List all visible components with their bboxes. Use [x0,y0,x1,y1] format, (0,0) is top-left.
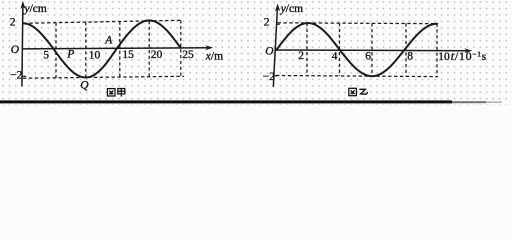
left dashed vertical x=20 [148,21,150,77]
left tick y=+2 [23,22,27,24]
right x-axis arrowhead [464,48,472,53]
svg-text:10: 10 [438,51,450,63]
svg-text:25: 25 [182,49,194,61]
right y-axis arrowhead [275,4,280,12]
bottom scan bar [0,100,452,103]
left tick y=-2 [22,75,26,77]
svg-text:20: 20 [151,49,163,61]
svg-text:4: 4 [332,50,338,62]
svg-text:t/10−1s: t/10−1s [451,49,487,63]
left dashed vertical x=10 [85,22,87,77]
bottom scan bar fade right [452,101,486,103]
svg-text:P: P [66,49,74,61]
svg-text:6: 6 [365,50,371,62]
left x-axis arrowhead [205,45,213,50]
svg-text:5: 5 [43,49,49,61]
right x-axis [276,49,470,52]
left x-axis [22,48,210,49]
svg-text:2: 2 [264,16,270,28]
right dashed vertical t=10 [436,24,438,77]
caption glyph 乙 (right) [359,89,367,94]
left dashed line y=+2 [24,20,182,23]
svg-text:15: 15 [122,49,134,61]
left wave curve [23,20,181,77]
right dashed vertical t=8 [405,23,407,76]
left y-axis arrowhead [20,1,25,9]
left dashed vertical x=5 [55,23,57,78]
svg-text:−2: −2 [263,71,275,83]
left dashed line y=-2 [23,76,184,78]
left dashed vertical x=15 [119,22,121,78]
right y-axis [273,6,277,87]
svg-text:O: O [265,46,274,58]
right dashed line y=-2 [276,76,438,77]
caption glyph 图 (left) [107,89,115,96]
svg-text:A: A [104,34,113,46]
svg-text:Q: Q [80,79,89,91]
svg-text:y/cm: y/cm [24,3,47,15]
svg-text:8: 8 [407,51,413,63]
right tick y=+2 [276,23,280,25]
svg-text:10: 10 [89,49,101,61]
svg-text:y/cm: y/cm [280,3,303,15]
left dashed vertical x=25 [180,20,182,76]
svg-text:2: 2 [298,50,304,62]
right wave curve [276,23,437,76]
halftone background [0,0,512,105]
right dashed vertical t=6 [371,23,373,76]
svg-text:x/m: x/m [205,50,223,62]
right dashed vertical t=2 [306,23,308,76]
left y-axis [22,4,23,87]
svg-text:−2: −2 [10,70,22,82]
caption glyph 甲 (left) [118,89,125,97]
right tick y=-2 [274,75,278,77]
svg-text:2: 2 [10,16,16,28]
right dashed vertical t=4 [339,23,341,76]
svg-text:O: O [11,44,20,56]
right dashed line y=+2 [278,22,439,25]
caption glyph 图 (right) [349,88,357,95]
